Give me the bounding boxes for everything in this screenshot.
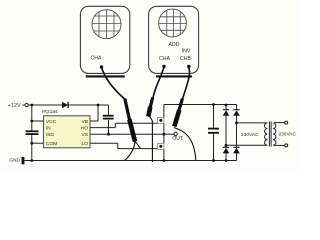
svg-text:ISD: ISD <box>46 132 55 138</box>
svg-text:230VAC: 230VAC <box>241 132 259 138</box>
svg-text:+12V: +12V <box>8 103 21 109</box>
svg-text:GND: GND <box>9 158 20 164</box>
svg-text:IN: IN <box>46 126 51 132</box>
svg-text:INV: INV <box>182 49 191 55</box>
svg-text:VCC: VCC <box>46 119 57 125</box>
svg-text:CHA: CHA <box>91 56 102 62</box>
svg-text:VB: VB <box>81 119 88 125</box>
svg-text:CHB: CHB <box>180 56 191 62</box>
svg-text:CHA: CHA <box>159 56 170 62</box>
svg-text:IR2184: IR2184 <box>42 109 58 115</box>
svg-text:ADD: ADD <box>169 42 180 48</box>
svg-text:COM: COM <box>46 141 57 147</box>
svg-text:LO: LO <box>81 141 88 147</box>
svg-text:VS: VS <box>81 132 88 138</box>
svg-text:230VAC: 230VAC <box>278 131 296 137</box>
svg-text:HO: HO <box>81 126 89 132</box>
svg-text:OUT: OUT <box>172 136 183 142</box>
